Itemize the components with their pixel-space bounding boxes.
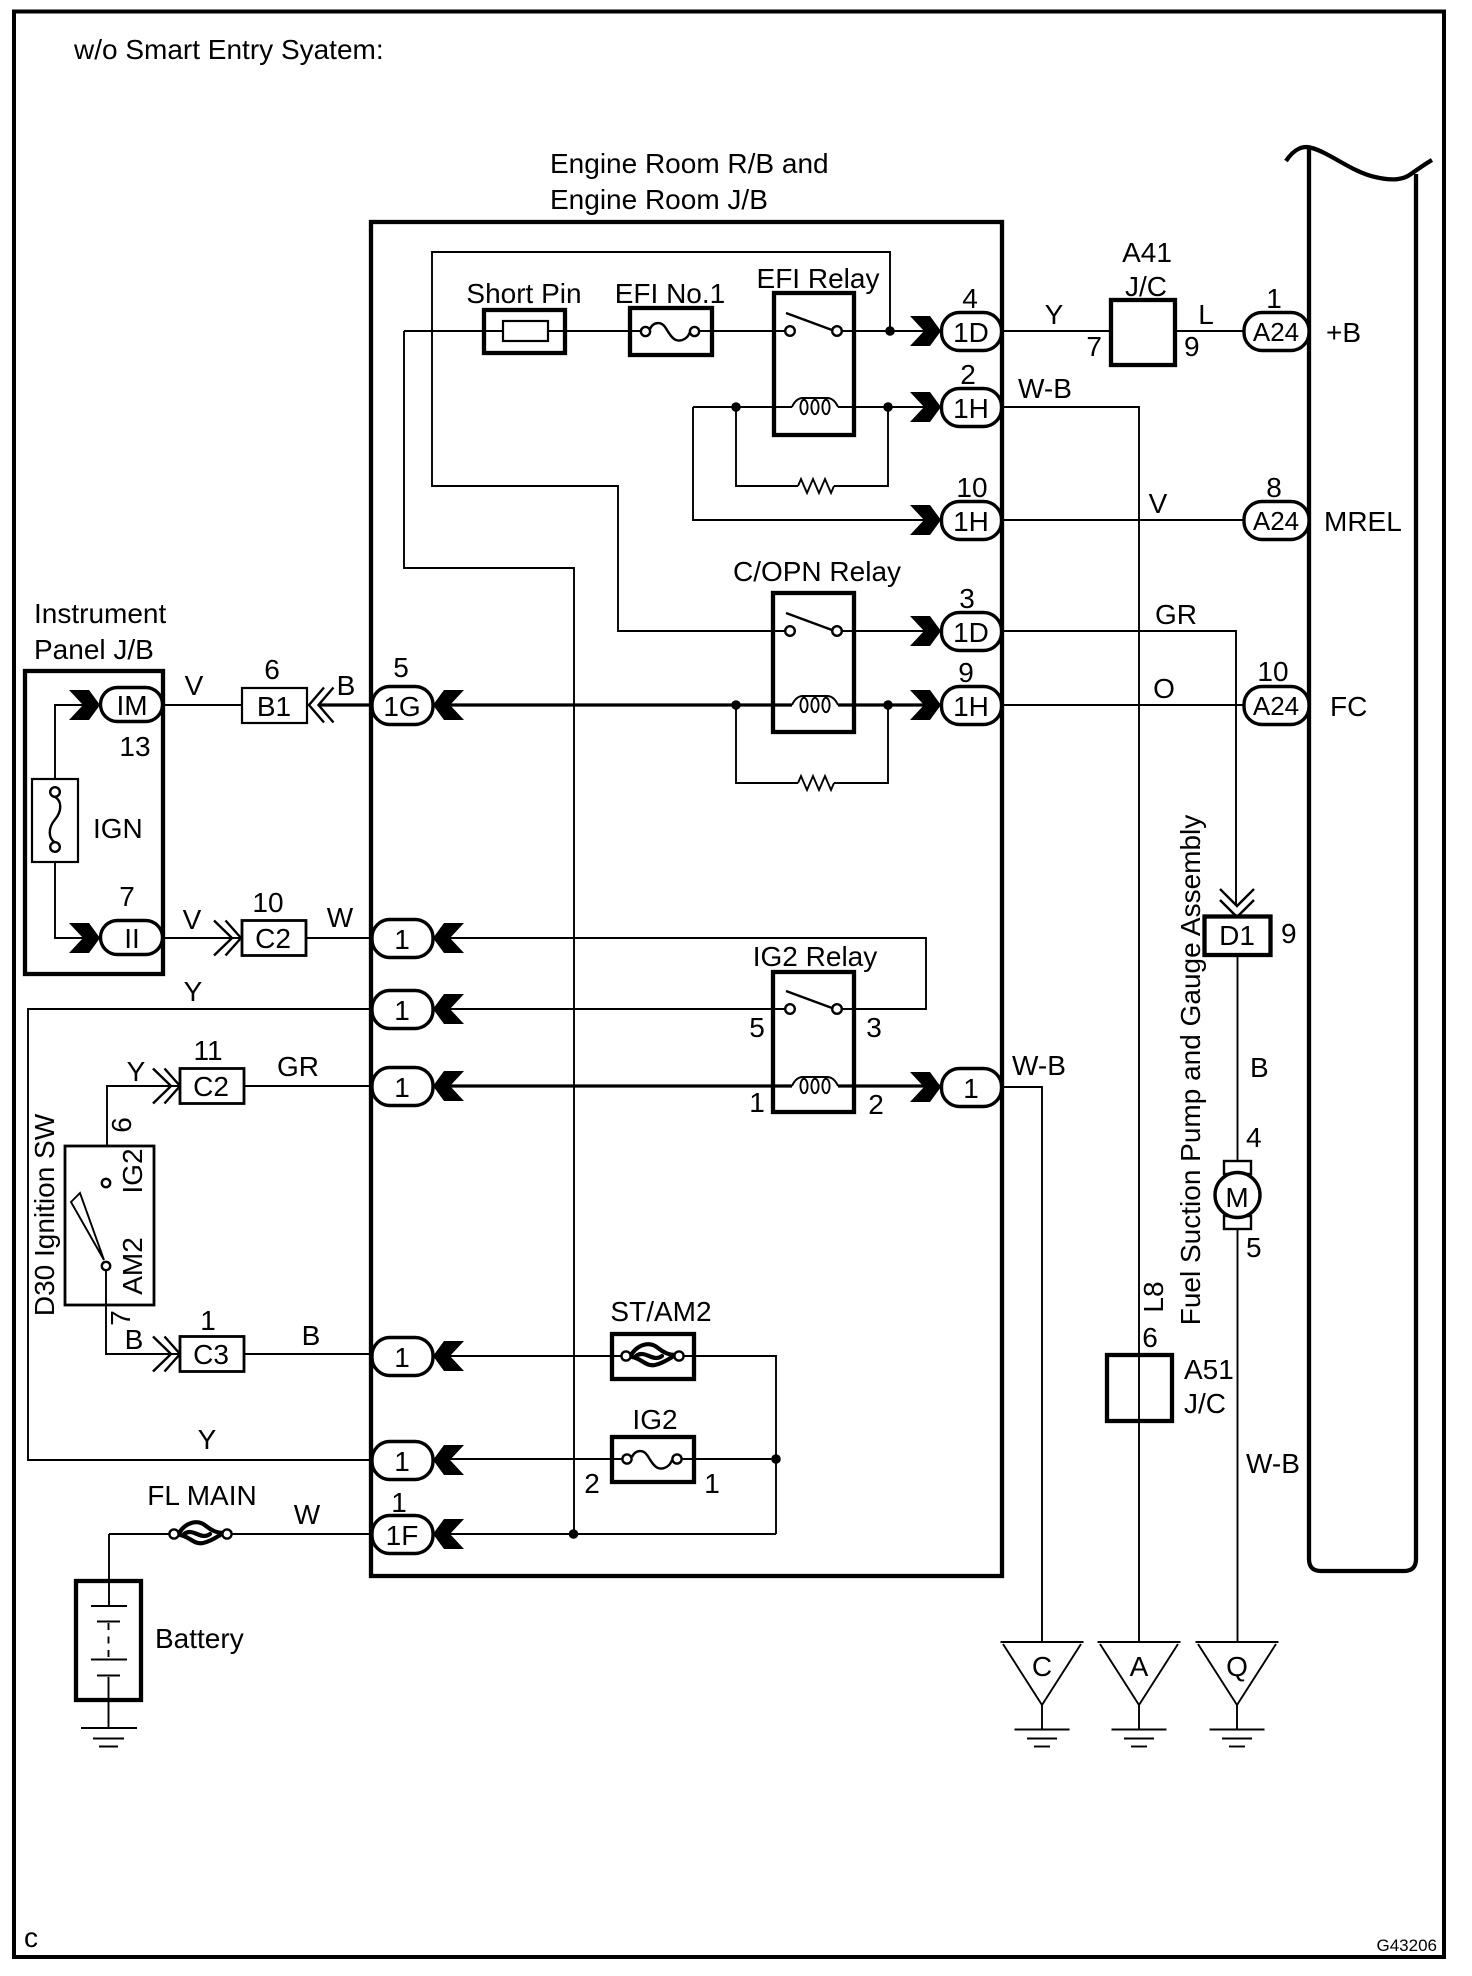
svg-text:1: 1 bbox=[1266, 283, 1282, 314]
svg-text:1H: 1H bbox=[953, 393, 989, 424]
wire: loop from 1D line up over labels down to C/OPN switch bbox=[432, 252, 890, 631]
svg-text:1H: 1H bbox=[953, 506, 989, 537]
svg-text:J/C: J/C bbox=[1125, 271, 1167, 302]
svg-text:7: 7 bbox=[1086, 331, 1102, 362]
connector 1F bbox=[372, 1487, 464, 1554]
svg-text:IGN: IGN bbox=[93, 813, 143, 844]
double chevron into D1 bbox=[1220, 889, 1254, 917]
connector C3 bbox=[180, 1305, 244, 1372]
svg-text:C2: C2 bbox=[255, 923, 291, 954]
svg-text:GR: GR bbox=[277, 1051, 319, 1082]
svg-text:1: 1 bbox=[704, 1468, 720, 1499]
svg-text:L8: L8 bbox=[1138, 1281, 1169, 1312]
IG2 relay coil bbox=[792, 1077, 838, 1086]
relay C/OPN Relay bbox=[733, 556, 901, 732]
svg-text:10: 10 bbox=[956, 472, 987, 503]
wire: L from A41 J/C to A24 +B bbox=[1175, 330, 1244, 332]
EFI relay coil bbox=[792, 398, 838, 407]
svg-text:B1: B1 bbox=[257, 691, 291, 722]
wire: EFI No.1 fuse to EFI relay switch bbox=[699, 330, 786, 332]
svg-text:AM2: AM2 bbox=[117, 1237, 148, 1295]
connector 1 (IG2 relay coil out) bbox=[910, 1069, 1002, 1107]
svg-text:IM: IM bbox=[116, 690, 147, 721]
double chevron B1 to 1G bbox=[309, 688, 334, 723]
svg-text:10: 10 bbox=[252, 887, 283, 918]
wire: thick GR row through IG2 coil to W-B 1 oval bbox=[433, 1084, 941, 1087]
svg-text:7: 7 bbox=[119, 881, 135, 912]
svg-text:V: V bbox=[183, 904, 202, 935]
svg-text:3: 3 bbox=[866, 1012, 882, 1043]
wire: C2 pin11 to 1 oval (GR) bbox=[244, 1085, 372, 1087]
resistor bypass of C/OPN relay coil bbox=[736, 705, 888, 790]
svg-text:1: 1 bbox=[749, 1087, 765, 1118]
svg-text:B: B bbox=[302, 1320, 321, 1351]
svg-text:5: 5 bbox=[1246, 1232, 1262, 1263]
svg-text:1: 1 bbox=[963, 1073, 979, 1104]
svg-text:GR: GR bbox=[1155, 599, 1197, 630]
svg-text:1D: 1D bbox=[953, 317, 989, 348]
fusible link FL MAIN bbox=[147, 1480, 256, 1543]
svg-text:6: 6 bbox=[264, 654, 280, 685]
svg-text:Y: Y bbox=[1045, 299, 1064, 330]
svg-text:W-B: W-B bbox=[1012, 1050, 1066, 1081]
connector A24 pin8 MREL bbox=[1244, 472, 1402, 540]
connector 1H pin10 bbox=[910, 472, 1002, 540]
svg-text:L: L bbox=[1198, 299, 1214, 330]
svg-text:+B: +B bbox=[1326, 317, 1361, 348]
ignition switch D30 bbox=[29, 1113, 154, 1326]
ground Q bbox=[1196, 1642, 1279, 1747]
svg-text:IG2: IG2 bbox=[117, 1148, 148, 1193]
Short Pin component bbox=[466, 278, 581, 353]
connector 1G bbox=[372, 652, 464, 725]
wire: II to C2 (V) bbox=[163, 937, 242, 939]
connector 1 (B row) bbox=[372, 1338, 464, 1376]
relay EFI Relay bbox=[757, 263, 880, 435]
junction A41 J/C bbox=[1086, 237, 1199, 365]
svg-text:1: 1 bbox=[200, 1305, 216, 1336]
svg-text:V: V bbox=[185, 670, 204, 701]
connector A24 pin10 FC bbox=[1244, 656, 1367, 725]
svg-text:11: 11 bbox=[193, 1035, 222, 1066]
svg-text:A: A bbox=[1130, 1651, 1149, 1682]
svg-text:G43206: G43206 bbox=[1377, 1936, 1438, 1955]
svg-text:B: B bbox=[1250, 1052, 1269, 1083]
wire: C2 to 1 oval (W) bbox=[306, 937, 372, 939]
relay IG2 Relay bbox=[753, 941, 878, 1112]
svg-text:C2: C2 bbox=[193, 1071, 229, 1102]
wire: ignition IG2 terminal to C2 pin11 (Y) bbox=[107, 1086, 180, 1179]
svg-text:C: C bbox=[1032, 1651, 1052, 1682]
wire: thick 1G row through C/OPN coil to 1H pin9 bbox=[433, 703, 941, 706]
junction dots EFI coil bbox=[731, 402, 741, 412]
C/OPN relay coil bbox=[792, 696, 838, 705]
connector 1H pin9 bbox=[910, 657, 1002, 725]
svg-text:C/OPN Relay: C/OPN Relay bbox=[733, 556, 901, 587]
svg-text:ST/AM2: ST/AM2 bbox=[610, 1296, 711, 1327]
fuse ST/AM2 fusible link bbox=[610, 1296, 711, 1379]
connector 1H pin2 bbox=[910, 359, 1002, 427]
svg-text:W-B: W-B bbox=[1018, 373, 1072, 404]
svg-text:Engine Room R/B and: Engine Room R/B and bbox=[550, 148, 829, 179]
svg-text:4: 4 bbox=[962, 283, 978, 314]
resistor bypass of EFI relay coil bbox=[736, 407, 888, 493]
svg-text:IG2 Relay: IG2 Relay bbox=[753, 941, 878, 972]
svg-text:Battery: Battery bbox=[155, 1623, 244, 1654]
wire: Short Pin / EFI No.1 feed line bbox=[404, 330, 640, 332]
connector IM bbox=[69, 688, 163, 763]
battery ground bbox=[81, 1728, 137, 1747]
svg-text:1: 1 bbox=[394, 1072, 410, 1103]
connector C2 pin11 bbox=[180, 1035, 244, 1104]
svg-text:Y: Y bbox=[198, 1424, 217, 1455]
svg-text:1: 1 bbox=[391, 1487, 407, 1518]
wire: D1 to fuel pump motor bbox=[1237, 955, 1239, 1161]
svg-text:FL MAIN: FL MAIN bbox=[147, 1480, 256, 1511]
wire: W-B from 1 oval down to ground C bbox=[1003, 1087, 1042, 1641]
svg-text:Y: Y bbox=[127, 1056, 146, 1087]
svg-text:W: W bbox=[294, 1499, 321, 1530]
wire: IM to IGN fuse to II inside panel bbox=[55, 705, 100, 938]
svg-text:1F: 1F bbox=[386, 1520, 419, 1551]
connector B1 bbox=[242, 654, 307, 723]
wire: C3 to 1 oval (B) bbox=[244, 1353, 372, 1355]
svg-text:A51: A51 bbox=[1184, 1354, 1234, 1385]
connector 1D pin3 bbox=[910, 583, 1002, 651]
wire: Y row from 1 oval to IG2 switch pin5 bbox=[433, 1008, 786, 1010]
svg-text:O: O bbox=[1153, 673, 1175, 704]
wire: B1 to 1G (B) bbox=[318, 703, 372, 706]
svg-text:W: W bbox=[327, 902, 354, 933]
wire: C/OPN switch output to 1D pin3 bbox=[841, 630, 941, 632]
wire: motor to ground Q bbox=[1237, 1229, 1239, 1641]
fuse EFI No.1 bbox=[615, 278, 725, 355]
svg-text:D1: D1 bbox=[1219, 920, 1255, 951]
wire: W row from 1 oval to IG2 switch pin3 bbox=[433, 938, 926, 1009]
svg-text:8: 8 bbox=[1266, 472, 1282, 503]
connector D1 bbox=[1205, 917, 1297, 956]
wire: battery feed riser from Short Pin line down to 1F line bbox=[404, 331, 574, 1534]
svg-text:9: 9 bbox=[1184, 331, 1200, 362]
connector 1 (GR row) bbox=[372, 1068, 464, 1106]
wire: EFI coil to 1H pin10 (MREL) branch bbox=[693, 407, 941, 520]
wire: EFI relay coil row to 1H pin2 bbox=[693, 406, 941, 408]
svg-text:9: 9 bbox=[958, 657, 974, 688]
svg-text:MREL: MREL bbox=[1324, 506, 1402, 537]
svg-text:9: 9 bbox=[1281, 918, 1297, 949]
junction dot 1F riser bbox=[569, 1529, 579, 1539]
svg-text:FC: FC bbox=[1330, 691, 1367, 722]
svg-text:A24: A24 bbox=[1253, 317, 1299, 347]
svg-text:2: 2 bbox=[868, 1089, 884, 1120]
double chevron into C2 bbox=[214, 921, 241, 956]
junction A51 J/C bbox=[1107, 1354, 1234, 1421]
svg-text:Short Pin: Short Pin bbox=[466, 278, 581, 309]
svg-text:1: 1 bbox=[394, 1342, 410, 1373]
svg-text:13: 13 bbox=[119, 731, 150, 762]
svg-text:Fuel Suction Pump and Gauge As: Fuel Suction Pump and Gauge Assembly bbox=[1175, 815, 1206, 1326]
svg-text:Q: Q bbox=[1226, 1651, 1248, 1682]
double chevron into C3 bbox=[153, 1337, 180, 1372]
junction dots C/OPN coil bbox=[731, 700, 741, 710]
svg-text:5: 5 bbox=[749, 1012, 765, 1043]
connector 1 (W row) bbox=[372, 920, 464, 958]
ground A bbox=[1098, 1642, 1181, 1747]
connector II bbox=[69, 881, 163, 955]
Instrument Panel J/B box bbox=[25, 598, 166, 974]
svg-text:Instrument: Instrument bbox=[34, 598, 166, 629]
svg-text:3: 3 bbox=[959, 583, 975, 614]
junction dot IG2 fuse to 1F riser bbox=[771, 1454, 781, 1464]
svg-text:EFI No.1: EFI No.1 bbox=[615, 278, 725, 309]
svg-text:A41: A41 bbox=[1122, 237, 1172, 268]
wire: EFI relay switch output to 1D pin4 bbox=[841, 330, 941, 332]
svg-text:Panel J/B: Panel J/B bbox=[34, 634, 154, 665]
wire: GR from 1D pin3 down to D1 bbox=[1003, 631, 1236, 905]
wire: V from 1H pin10 to A24 MREL bbox=[1003, 519, 1244, 521]
svg-text:1G: 1G bbox=[383, 691, 420, 722]
svg-text:A24: A24 bbox=[1253, 506, 1299, 536]
ECM vertical column with torn top bbox=[1286, 147, 1432, 1571]
svg-text:2: 2 bbox=[960, 359, 976, 390]
svg-text:EFI Relay: EFI Relay bbox=[757, 263, 880, 294]
svg-text:J/C: J/C bbox=[1184, 1388, 1226, 1419]
svg-text:1H: 1H bbox=[953, 691, 989, 722]
wire: ignition AM2 down to C3 (B) bbox=[106, 1270, 180, 1354]
wire: IM to B1 (V) bbox=[163, 704, 242, 706]
wire: O from 1H pin9 to A24 FC bbox=[1003, 704, 1244, 706]
svg-text:c: c bbox=[24, 1922, 38, 1953]
svg-text:4: 4 bbox=[1246, 1122, 1262, 1153]
svg-text:Y: Y bbox=[184, 976, 203, 1007]
wire: W-B from 1H pin2 down to ground A bbox=[1003, 407, 1139, 1641]
connector 1D pin4 bbox=[910, 283, 1002, 351]
fuse IG2 bbox=[584, 1404, 720, 1499]
svg-text:W-B: W-B bbox=[1246, 1448, 1300, 1479]
svg-text:M: M bbox=[1225, 1182, 1248, 1213]
svg-text:B: B bbox=[337, 670, 356, 701]
connector A24 +B bbox=[1244, 283, 1361, 351]
wire: Y from 1D pin4 to A41 J/C bbox=[1003, 330, 1111, 332]
svg-text:w/o Smart Entry Syatem:: w/o Smart Entry Syatem: bbox=[73, 34, 384, 65]
svg-text:V: V bbox=[1149, 488, 1168, 519]
svg-text:2: 2 bbox=[584, 1468, 600, 1499]
connector C2 pin10 bbox=[242, 887, 306, 956]
motor M fuel pump bbox=[1215, 1161, 1260, 1229]
svg-text:Engine Room J/B: Engine Room J/B bbox=[550, 184, 768, 215]
svg-text:6: 6 bbox=[106, 1117, 137, 1133]
svg-text:5: 5 bbox=[393, 652, 409, 683]
junction on 1D wire bbox=[885, 326, 895, 336]
svg-text:D30 Ignition SW: D30 Ignition SW bbox=[29, 1113, 60, 1316]
svg-text:II: II bbox=[124, 923, 140, 954]
fuse IGN bbox=[32, 779, 143, 862]
svg-text:B: B bbox=[125, 1324, 144, 1355]
connector 1 (Y bottom row) bbox=[372, 1442, 464, 1480]
Engine Room R/B and J/B box bbox=[371, 222, 1002, 1576]
ground C bbox=[1001, 1642, 1084, 1747]
svg-text:IG2: IG2 bbox=[632, 1404, 677, 1435]
wire: Y loop via left rail bbox=[28, 1009, 372, 1460]
wire: Y bottom row to IG2 fuse bbox=[433, 1458, 776, 1460]
wire: battery W through FL MAIN to 1F bbox=[109, 1533, 776, 1535]
svg-text:1: 1 bbox=[394, 995, 410, 1026]
svg-text:1: 1 bbox=[394, 924, 410, 955]
double chevron into C2 pin11 bbox=[153, 1069, 180, 1104]
connector 1 (Y row) bbox=[372, 991, 464, 1029]
svg-text:A24: A24 bbox=[1253, 691, 1299, 721]
svg-text:1: 1 bbox=[394, 1446, 410, 1477]
svg-text:C3: C3 bbox=[193, 1339, 229, 1370]
svg-text:6: 6 bbox=[1142, 1322, 1158, 1353]
battery bbox=[76, 1534, 244, 1728]
svg-text:1D: 1D bbox=[953, 617, 989, 648]
wire: B row to ST/AM2 fuse and down to 1F line bbox=[433, 1356, 776, 1534]
svg-text:10: 10 bbox=[1257, 656, 1288, 687]
